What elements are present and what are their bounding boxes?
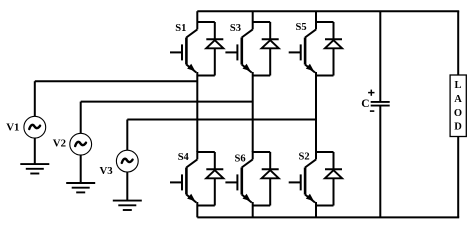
svg-text:S5: S5 — [296, 22, 307, 33]
diode D5 (antiparallel with S5) — [325, 22, 342, 76]
diode D6 (antiparallel with S2) — [325, 152, 342, 206]
svg-text:S6: S6 — [235, 153, 246, 164]
wire S6 collector connector — [253, 151, 271, 159]
wire S3 collector connector — [253, 11, 271, 29]
wire V1 to ground — [34, 138, 36, 164]
wire S6 emitter to DC- rail — [252, 206, 254, 218]
wire S4 emitter to DC- rail — [196, 206, 198, 218]
wire S4 collector connector — [197, 151, 215, 159]
svg-text:S3: S3 — [230, 23, 241, 34]
label S1 — [175, 23, 186, 34]
transistor S2 (IGBT) — [289, 159, 316, 202]
wire capacitor to DC- rail — [379, 107, 381, 218]
wire phase C from V3 to leg — [127, 119, 316, 121]
svg-text:O: O — [454, 108, 462, 119]
svg-text:S4: S4 — [178, 152, 190, 163]
label V3 — [100, 165, 114, 177]
ground (V3) — [113, 201, 142, 210]
wire DC+ rail to load — [457, 11, 459, 75]
transistor S3 (IGBT) — [225, 29, 252, 72]
diode D4 (antiparallel with S6) — [262, 152, 279, 206]
transistor S1 (IGBT) — [170, 29, 197, 72]
load (box) — [450, 75, 466, 137]
transistor S5 (IGBT) — [289, 29, 316, 72]
label C — [361, 98, 369, 110]
svg-text:V1: V1 — [6, 121, 19, 133]
svg-text:S2: S2 — [299, 152, 310, 163]
svg-text:C: C — [361, 98, 369, 110]
wire load to DC- rail — [457, 137, 459, 218]
label S2 — [299, 152, 310, 163]
svg-text:A: A — [454, 94, 462, 105]
label S6 — [235, 153, 246, 164]
wire S3 emitter junction — [253, 72, 271, 76]
ground (V2) — [66, 183, 95, 192]
label S3 — [230, 23, 241, 34]
wire phase A from V1 to leg — [35, 80, 198, 82]
diode D2 (antiparallel with S4) — [206, 152, 223, 206]
wire S5 collector connector — [316, 11, 334, 29]
label + (capacitor polarity) — [368, 90, 374, 96]
wire S4 emitter junction — [197, 202, 215, 206]
svg-text:S1: S1 — [175, 23, 186, 34]
diode D3 (antiparallel with S3) — [262, 22, 279, 76]
label L A O D — [454, 80, 462, 133]
label S5 — [296, 22, 307, 33]
wire S2 emitter to DC- rail — [315, 206, 317, 218]
wire V2 to ground — [80, 155, 82, 183]
capacitor C — [371, 102, 390, 106]
label V1 — [6, 121, 19, 133]
wire top DC+ rail — [197, 10, 459, 12]
wire phase B leg (midpoint vertical) — [252, 76, 254, 153]
label V2 — [53, 138, 66, 150]
AC source V1 — [24, 81, 46, 138]
svg-text:V3: V3 — [100, 165, 114, 177]
ground (V1) — [20, 164, 49, 173]
wire S5 emitter junction — [316, 72, 334, 76]
svg-text:L: L — [454, 80, 461, 91]
AC source V2 — [70, 102, 92, 156]
wire S2 emitter junction — [316, 202, 334, 206]
wire S6 emitter junction — [253, 202, 271, 206]
wire S1 emitter junction — [197, 72, 215, 76]
wire phase C leg (midpoint vertical) — [315, 76, 317, 153]
wire bottom DC- rail — [197, 216, 459, 218]
wire S1 collector connector — [197, 11, 215, 29]
diode D1 (antiparallel with S1) — [206, 22, 223, 76]
label S4 — [178, 152, 190, 163]
wire V3 to ground — [126, 172, 128, 201]
wire phase B from V2 to leg — [81, 101, 253, 103]
transistor S4 (IGBT) — [170, 159, 197, 202]
wire S2 collector connector — [316, 151, 334, 159]
label - (capacitor polarity) — [370, 110, 374, 112]
transistor S6 (IGBT) — [225, 159, 252, 202]
AC source V3 — [116, 120, 138, 173]
wire phase A leg (midpoint vertical) — [196, 76, 198, 153]
svg-text:D: D — [454, 122, 462, 133]
svg-text:V2: V2 — [53, 138, 66, 150]
wire DC bus to capacitor (top) — [379, 11, 381, 101]
